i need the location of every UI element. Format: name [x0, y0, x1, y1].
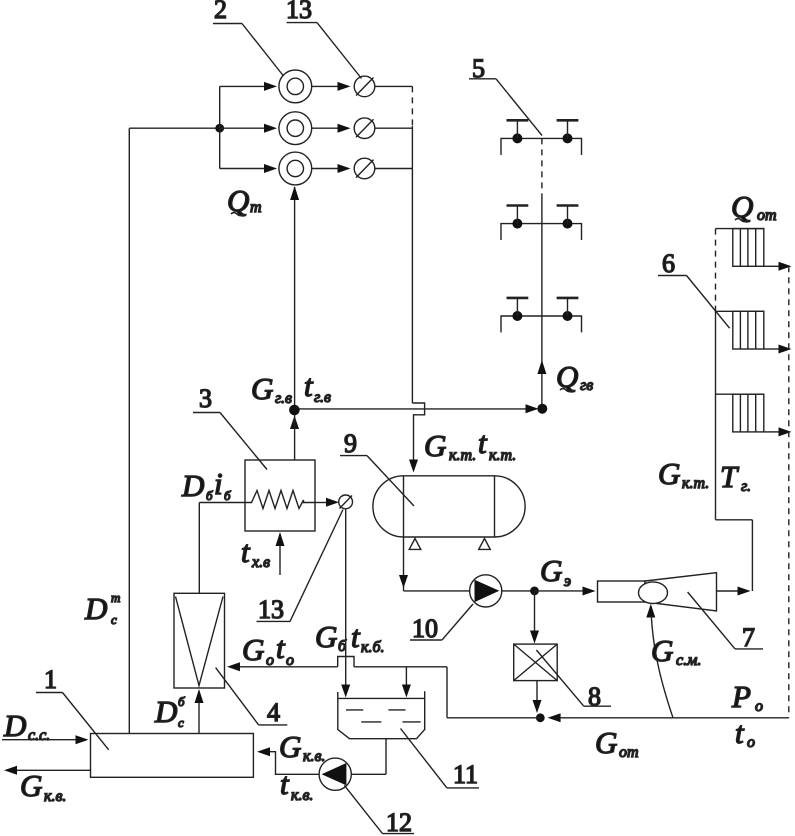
deaerator column 4	[174, 593, 225, 688]
svg-text:3: 3	[199, 384, 212, 413]
tap A2 dot	[563, 133, 573, 143]
tap B2 dot	[563, 219, 573, 229]
tap A2 stem and cap	[567, 121, 569, 138]
ejector 7 diffuser cone	[645, 573, 717, 611]
deaerator 4 internal V	[176, 597, 224, 686]
ejector 7 mixing chamber ellipse	[639, 582, 668, 604]
wire: row3 bus to heater 2c	[220, 168, 265, 170]
svg-text:13: 13	[286, 0, 312, 24]
svg-text:D: D	[3, 708, 26, 743]
wire: corner up	[446, 667, 448, 718]
radiator 6a body (hatched)	[733, 229, 764, 267]
wire: feed line from left riser to bus (y=128.9)	[129, 127, 219, 129]
wire: supply riser step right	[716, 519, 753, 521]
svg-text:G: G	[658, 456, 680, 491]
tank 11 water dashes row 1	[346, 709, 363, 711]
wire: pump 10 to junction dot	[502, 590, 535, 592]
drum 9 support left	[409, 539, 421, 550]
heat exchanger 3 (hot water heater box)	[245, 460, 315, 531]
radiator return riser (dashed right edge)	[788, 266, 790, 718]
wire: t_х.в cold water arrow into heat exchanger 3 bottom	[279, 534, 281, 575]
svg-text:т: т	[111, 590, 120, 605]
svg-text:с.с.: с.с.	[28, 727, 50, 744]
wire: junction to ejector 7 inlet	[535, 590, 584, 592]
wire: branch down into tank 11 (second inlet)	[405, 667, 407, 686]
svg-text:t: t	[241, 534, 251, 569]
steam drum 9 (horizontal capsule tank)	[373, 476, 525, 537]
svg-text:Q: Q	[227, 183, 249, 218]
svg-text:г.в: г.в	[275, 390, 292, 407]
wire: G_б line from valve 13d down to tank 11	[345, 509, 347, 686]
node: junction dot on return main	[536, 713, 545, 722]
wire: G_о t_о line left segment with arrow into deaerator 4	[239, 666, 338, 668]
radiator 6c body (hatched)	[733, 394, 764, 432]
wire: return main from right riser to junction	[560, 717, 789, 719]
boiler 1 (long rectangle)	[91, 734, 254, 778]
svg-text:G: G	[424, 428, 446, 463]
valve 13d (circle with slash after heater 3)	[339, 495, 353, 509]
svg-text:б: б	[338, 638, 347, 655]
node: junction dot G_э	[530, 587, 539, 596]
svg-text:э: э	[564, 573, 571, 590]
wire: heater 2a to valve 13a	[312, 85, 338, 87]
wire: G_к.в. blowdown arrow out of boiler left	[16, 769, 91, 771]
radiator 6c top feed line	[716, 393, 764, 395]
svg-text:к.в.: к.в.	[303, 748, 325, 765]
svg-text:10: 10	[412, 614, 438, 643]
svg-text:х.в: х.в	[251, 554, 270, 571]
tap C2 stem and cap	[567, 299, 569, 316]
tap B2 stem and cap	[567, 206, 569, 223]
wire: valve 13b to riser	[375, 127, 413, 129]
svg-text:t: t	[280, 766, 290, 801]
svg-text:4: 4	[267, 698, 280, 727]
svg-text:от: от	[619, 744, 639, 761]
radiator 6a outlet arrow	[764, 265, 780, 267]
wire: valve 13c to riser	[375, 168, 413, 170]
svg-text:D: D	[84, 591, 107, 626]
wire: tap riser solid from y199 down to dot	[541, 199, 543, 409]
tap row C: header bar with end drops	[501, 316, 582, 332]
wire: left vertical bus of heater rows	[219, 86, 221, 168]
wire: outlet to pump 12	[351, 773, 386, 775]
tank 11 water dashes row 2	[361, 721, 381, 723]
svg-text:t: t	[276, 630, 286, 665]
wire: ejector 7 outlet arrow to riser	[717, 590, 739, 592]
svg-text:к.в.: к.в.	[44, 788, 66, 805]
tap A1 dot	[512, 133, 522, 143]
svg-text:G: G	[651, 633, 673, 668]
drum 9 support right	[479, 539, 491, 550]
svg-text:i: i	[214, 466, 223, 501]
svg-text:т: т	[250, 199, 262, 216]
wire: heater riser solid down to jog	[411, 126, 413, 403]
svg-text:G: G	[20, 768, 42, 803]
svg-text:к.т.: к.т.	[489, 447, 516, 464]
drum 9 right tangent line	[494, 476, 496, 537]
wire: riser up into heater 2c from G junction	[294, 187, 296, 410]
wire: return main from junction left to corner	[447, 717, 540, 719]
svg-text:г.: г.	[741, 478, 751, 495]
svg-text:12: 12	[386, 808, 412, 836]
makeup tank 11 walls	[338, 691, 425, 738]
radiator supply riser solid segment	[715, 309, 717, 520]
svg-text:t: t	[351, 619, 361, 654]
svg-text:t: t	[304, 368, 314, 403]
svg-text:6: 6	[662, 249, 675, 278]
svg-text:с.м.: с.м.	[676, 652, 701, 669]
wire: D_б i_б vertical down to deaerator 4	[198, 503, 200, 594]
svg-text:P: P	[731, 679, 751, 714]
wire: valve 13a to riser	[375, 85, 413, 87]
pump 10 (circle with filled triangle pointing right)	[470, 575, 502, 607]
svg-text:t: t	[478, 425, 488, 460]
svg-text:1: 1	[44, 665, 57, 694]
svg-text:о: о	[747, 734, 755, 751]
arrow up into G_г.в junction dot	[290, 416, 299, 430]
wire: heater 2c to valve 13c	[312, 168, 338, 170]
wire: row1 bus to heater 2a	[220, 85, 265, 87]
arrow Q_гв up on tap riser	[537, 360, 546, 374]
wire: jog hop of G_о t_о over G_б line	[338, 657, 354, 667]
svg-text:T: T	[720, 459, 740, 494]
wire: hot water main horizontal G_гв (y=408.9)	[295, 408, 537, 410]
svg-text:о: о	[266, 652, 274, 669]
wire: G_с.м. suction arrow into ejector bottom	[646, 604, 655, 618]
tap C2 dot	[563, 311, 573, 321]
wire: jog hop of riser over main horizontal line	[412, 403, 424, 461]
radiator 6b body (hatched)	[733, 311, 764, 349]
wire: riser from heat exchanger 3 top up to junction	[294, 415, 296, 460]
svg-text:G: G	[315, 619, 337, 654]
svg-text:11: 11	[453, 760, 478, 789]
svg-text:13: 13	[258, 595, 284, 624]
wire: D_б i_б feed into heat exchanger 3 left	[199, 502, 245, 504]
tap B1 dot	[512, 219, 522, 229]
radiator 6b outlet arrow	[764, 348, 780, 350]
svg-text:о: о	[755, 698, 763, 715]
svg-text:гв: гв	[580, 377, 593, 394]
svg-text:к.б.: к.б.	[361, 639, 385, 656]
heater 2a (top network heater, double circle)	[279, 70, 312, 103]
svg-text:б: б	[178, 694, 185, 709]
svg-text:t: t	[735, 715, 745, 750]
wire: box 8 outlet down to return junction	[536, 681, 538, 702]
wire: heater riser dashed top segment	[411, 86, 413, 126]
radiator 6c outlet arrow	[764, 431, 780, 433]
wire: steam arrow from boiler 1 up into deaerator 4	[198, 691, 200, 734]
wire: supply riser down to ejector outlet	[751, 520, 753, 591]
radiator 6b top feed line	[716, 310, 764, 312]
node: junction dot on bus at row2	[215, 124, 224, 133]
svg-text:D: D	[154, 694, 177, 729]
svg-text:с: с	[178, 715, 184, 730]
svg-text:7: 7	[742, 623, 755, 652]
svg-text:9: 9	[344, 429, 357, 458]
tap C1 stem and cap	[516, 299, 518, 316]
wire: drum outlet to pump 10	[404, 590, 470, 592]
wire: junction down to mixer box 8	[534, 591, 536, 632]
pump 12 (circle with filled triangle pointing left)	[319, 758, 351, 790]
svg-text:к.т.: к.т.	[449, 447, 476, 464]
svg-text:от: от	[757, 207, 777, 224]
svg-text:б: б	[206, 488, 213, 503]
tap C1 dot	[512, 311, 522, 321]
svg-text:G: G	[242, 632, 264, 667]
svg-text:D: D	[181, 468, 204, 503]
svg-text:о: о	[286, 652, 294, 669]
node: dot at G_г.в junction	[289, 405, 300, 416]
svg-text:G: G	[251, 371, 273, 406]
svg-text:Q: Q	[731, 189, 753, 224]
wire: heat exchanger 3 out to valve 13d	[315, 502, 327, 504]
radiator supply riser dashed top segment	[715, 229, 717, 309]
wire: pump 12 to boiler (with step)	[269, 752, 319, 775]
wire: return main arrow into junction	[548, 713, 561, 722]
heater 2c (bottom network heater)	[279, 152, 312, 185]
drum 9 left tangent line	[403, 476, 405, 537]
wire: left long riser (D_c^т steam main)	[128, 128, 130, 733]
wire: heater 2b to valve 13b	[312, 127, 338, 129]
svg-text:г.в: г.в	[314, 389, 331, 406]
valve 13a (circle with slash)	[354, 76, 375, 97]
wire: tank 11 outlet down	[385, 739, 387, 775]
svg-text:Q: Q	[556, 359, 578, 394]
wire: arrow into steam drum 9 top	[409, 460, 418, 473]
svg-text:G: G	[279, 729, 301, 764]
wire: G_с.м. curved suction line from return main	[651, 616, 673, 718]
tap group 5: riser dashed segment above row1->row2	[541, 138, 543, 199]
node: dot at hot water main / tap riser	[537, 404, 547, 414]
heater 2b (middle network heater)	[279, 112, 312, 145]
wire: row2 bus to heater 2b	[220, 127, 265, 129]
radiator 6a top feed line	[716, 228, 764, 230]
valve 13b (circle with slash)	[354, 118, 375, 139]
wire: G_о t_о line right segment	[354, 666, 447, 668]
tap A1 stem and cap	[516, 121, 518, 138]
svg-text:G: G	[540, 553, 562, 588]
tap B1 stem and cap	[516, 206, 518, 223]
svg-text:с: с	[111, 612, 117, 627]
mixer box 8 (square with X)	[514, 644, 558, 681]
svg-text:к.в.: к.в.	[291, 787, 313, 804]
svg-text:G: G	[595, 725, 617, 760]
tap row A: header bar with end drops	[501, 138, 582, 155]
valve 13c (circle with slash)	[354, 158, 375, 179]
tank 11 water level line	[338, 697, 425, 699]
wire: drum 9 outlet down	[403, 537, 405, 591]
svg-text:2: 2	[214, 0, 227, 24]
svg-text:б: б	[224, 488, 231, 503]
svg-text:к.т.: к.т.	[682, 475, 709, 492]
wire: D_с.с. arrow into boiler left	[2, 739, 77, 741]
heating coil zigzag inside heat exchanger 3	[245, 491, 315, 509]
tap row B: header bar with end drops	[501, 224, 582, 240]
ejector 7 nozzle rectangle	[598, 581, 646, 602]
